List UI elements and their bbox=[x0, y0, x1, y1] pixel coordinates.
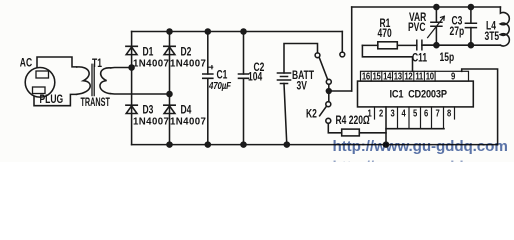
IC1 body bbox=[358, 81, 474, 107]
capacitor C11 plates bbox=[417, 40, 422, 50]
svg-text:1N4007: 1N4007 bbox=[170, 58, 206, 69]
bridge column D2/D4 wire bbox=[169, 32, 171, 145]
transformer T1 secondary winding bbox=[100, 68, 111, 94]
svg-text:6: 6 bbox=[424, 107, 428, 118]
junction dot bottom rail at C2 bbox=[241, 142, 246, 147]
svg-text:11: 11 bbox=[415, 71, 423, 82]
junction dot bottom rail at C1 bbox=[205, 142, 210, 147]
wire rail drop to switch right contact bbox=[341, 32, 343, 53]
svg-text:D4: D4 bbox=[181, 104, 192, 117]
junction dot bottom rail at D4 bbox=[167, 142, 172, 147]
plug prong bottom bbox=[33, 87, 46, 94]
battery BATT wires bbox=[284, 44, 318, 145]
wire C11 to tank bbox=[422, 44, 437, 46]
resistor R1 body bbox=[378, 42, 398, 49]
svg-text:16: 16 bbox=[362, 71, 370, 82]
junction dot node A bbox=[129, 65, 134, 70]
IC1 top pin box strip bbox=[361, 71, 469, 81]
wire secondary top to bridge node A bbox=[111, 67, 132, 69]
svg-text:IC1 CD2003P: IC1 CD2003P bbox=[390, 89, 448, 101]
switch S1 throw contact left bbox=[315, 53, 320, 58]
svg-text:12: 12 bbox=[404, 71, 412, 82]
svg-text:4: 4 bbox=[402, 107, 406, 118]
junction dot top rail at C1 bbox=[205, 29, 210, 34]
diode D4 bbox=[164, 105, 175, 113]
IC1 pin 3 lead bbox=[397, 107, 399, 129]
variable capacitor PVC arrow bbox=[428, 16, 445, 37]
switch K2 blade bbox=[320, 106, 327, 116]
svg-text:http://www.gu-gddq.com: http://www.gu-gddq.com bbox=[333, 138, 508, 155]
svg-text:5: 5 bbox=[413, 107, 417, 118]
wire K2 to R4 bbox=[328, 123, 341, 133]
wire plug top to transformer primary top bbox=[37, 57, 77, 68]
capacitor C1 wire bbox=[207, 32, 209, 145]
top rail wire from bridge to switch bbox=[132, 31, 343, 33]
svg-text:27p: 27p bbox=[450, 26, 465, 39]
svg-text:R4 220Ω: R4 220Ω bbox=[336, 115, 370, 128]
ground bus bar pins 3-7 bbox=[386, 128, 444, 130]
IC1 pin 4 lead bbox=[408, 107, 410, 129]
svg-text:7: 7 bbox=[436, 107, 440, 118]
bottom rail wire bbox=[132, 144, 498, 146]
svg-text:C11: C11 bbox=[412, 52, 427, 65]
svg-text:TRANST: TRANST bbox=[81, 96, 110, 109]
svg-text:3: 3 bbox=[391, 107, 395, 118]
svg-text:T1: T1 bbox=[92, 58, 102, 71]
transformer T1 primary winding bbox=[77, 67, 91, 94]
svg-text:10: 10 bbox=[426, 71, 434, 82]
resistor R4 body bbox=[342, 129, 360, 136]
AC plug P1 body bbox=[25, 68, 55, 98]
battery BATT plates bbox=[278, 73, 291, 84]
svg-text:http://www.gu-gddq.com: http://www.gu-gddq.com bbox=[333, 159, 508, 163]
junction dot oscillator top rail at C3 bbox=[468, 5, 473, 10]
svg-text:AC: AC bbox=[20, 57, 33, 70]
resistor R1 hook wire bbox=[362, 45, 412, 71]
svg-text:K2: K2 bbox=[306, 108, 317, 121]
variable capacitor PVC wire bbox=[435, 7, 437, 45]
svg-text:3V: 3V bbox=[297, 80, 308, 93]
junction dot node B bbox=[167, 92, 172, 97]
svg-text:PLUG: PLUG bbox=[40, 94, 64, 107]
wire hook to R1 bbox=[362, 44, 377, 46]
junction dot bottom rail at pin2 bbox=[384, 142, 389, 147]
oscillator top rail wire bbox=[352, 6, 501, 8]
junction dot bottom rail at battery bbox=[284, 142, 289, 147]
junction dot oscillator top rail at PVC bbox=[434, 5, 439, 10]
svg-text:1N4007: 1N4007 bbox=[133, 58, 169, 69]
diode D3 bbox=[126, 105, 137, 113]
IC1 pin 2 lead to ground rail bbox=[385, 107, 387, 145]
wire plug bottom to transformer primary bottom bbox=[34, 94, 77, 105]
svg-text:D2: D2 bbox=[181, 46, 192, 59]
wire secondary bottom to bridge node B bbox=[111, 93, 170, 95]
IC1 pin 7 lead bbox=[443, 107, 445, 129]
switch K2 top contact bbox=[326, 102, 331, 107]
junction dot tank bottom at PVC bbox=[434, 43, 439, 48]
svg-text:1N4007: 1N4007 bbox=[133, 116, 169, 127]
wire switch common to node K bbox=[328, 84, 330, 101]
switch S1 common contact bbox=[326, 79, 331, 84]
tank bottom wire bbox=[424, 44, 501, 46]
IC1 top pin separators bbox=[371, 71, 435, 81]
junction node K bbox=[326, 89, 331, 94]
IC1 pin 6 lead bbox=[431, 107, 433, 129]
svg-text:PVC: PVC bbox=[408, 22, 426, 35]
svg-text:13: 13 bbox=[394, 71, 402, 82]
label C1 polarity plus bbox=[208, 65, 213, 69]
diode D1 bbox=[126, 46, 137, 54]
IC1 pin 1 lead bbox=[374, 107, 376, 119]
svg-text:470µF: 470µF bbox=[208, 80, 231, 91]
switch K2 bottom contact bbox=[326, 118, 331, 123]
svg-text:104: 104 bbox=[248, 71, 263, 84]
svg-text:2: 2 bbox=[379, 107, 383, 118]
svg-text:1N4007: 1N4007 bbox=[170, 116, 206, 127]
IC1 pin 8 lead bbox=[454, 107, 456, 119]
svg-text:14: 14 bbox=[383, 71, 391, 82]
IC1 pin 5 lead bbox=[420, 107, 422, 129]
capacitor C2 plates bbox=[239, 74, 249, 78]
diode D2 bbox=[164, 46, 175, 54]
capacitor C1 plates bbox=[203, 74, 213, 78]
junction dot top rail at D2 bbox=[167, 29, 172, 34]
transformer T1 core bbox=[92, 64, 94, 95]
svg-text:9: 9 bbox=[451, 71, 455, 82]
switch S1 throw contact right bbox=[340, 52, 345, 57]
wire R1 to C11 bbox=[397, 44, 417, 46]
svg-text:470: 470 bbox=[378, 28, 393, 41]
wire R4 to pin2 lead bbox=[359, 132, 386, 134]
capacitor C3 plates bbox=[465, 23, 476, 27]
capacitor C2 wire bbox=[243, 32, 245, 145]
svg-text:15p: 15p bbox=[440, 52, 455, 65]
capacitor C3 wire bbox=[470, 7, 472, 45]
junction dot top rail at C2 bbox=[241, 29, 246, 34]
IC1 pin 9 wire to antenna rail bbox=[462, 69, 498, 145]
plug prong top bbox=[36, 71, 49, 78]
inductor L4 winding bbox=[500, 7, 509, 46]
svg-text:3T5: 3T5 bbox=[485, 31, 500, 44]
svg-text:8: 8 bbox=[447, 107, 451, 118]
variable capacitor PVC plates bbox=[431, 22, 442, 26]
switch S1 blade bbox=[319, 57, 328, 79]
svg-text:D3: D3 bbox=[143, 104, 154, 117]
svg-text:15: 15 bbox=[372, 71, 380, 82]
svg-text:D1: D1 bbox=[143, 46, 154, 59]
junction dot tank bottom at C3 bbox=[468, 43, 473, 48]
oscillator section left rail wire bbox=[351, 7, 353, 91]
bridge column D1/D3 wire bbox=[131, 32, 133, 145]
wire node K to oscillator rail bbox=[329, 90, 352, 92]
svg-text:1: 1 bbox=[368, 107, 372, 118]
